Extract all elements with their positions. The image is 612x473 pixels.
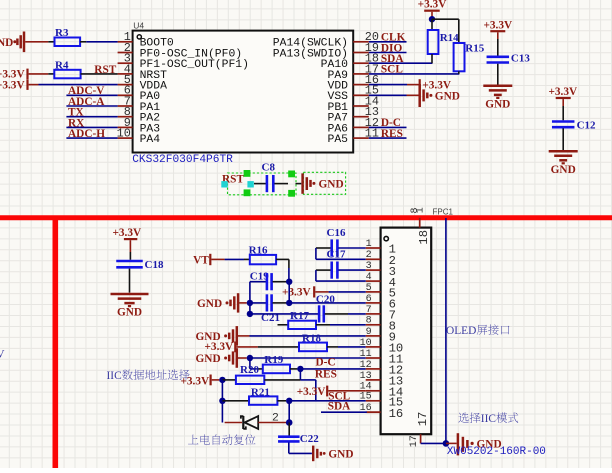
svg-text:PA4: PA4 bbox=[140, 134, 161, 146]
svg-text:+3.3V: +3.3V bbox=[297, 386, 327, 398]
svg-text:13: 13 bbox=[360, 371, 372, 382]
svg-text:D-C: D-C bbox=[316, 356, 336, 368]
svg-text:+3.3V: +3.3V bbox=[418, 0, 448, 11]
svg-text:C17: C17 bbox=[327, 248, 346, 260]
svg-text:R3: R3 bbox=[55, 27, 69, 39]
svg-text:R19: R19 bbox=[264, 354, 283, 366]
svg-text:2: 2 bbox=[272, 412, 279, 424]
svg-text:SDA: SDA bbox=[328, 400, 351, 412]
svg-text:C18: C18 bbox=[145, 259, 164, 271]
svg-text:3: 3 bbox=[366, 261, 372, 272]
svg-text:IIC: IIC bbox=[481, 413, 496, 425]
svg-text:GND: GND bbox=[435, 90, 460, 102]
svg-text:+3.3V: +3.3V bbox=[483, 19, 513, 31]
svg-text:C16: C16 bbox=[327, 227, 346, 239]
svg-text:GND: GND bbox=[0, 37, 13, 49]
svg-text:GND: GND bbox=[551, 164, 576, 176]
svg-text:IIC: IIC bbox=[107, 370, 122, 382]
svg-text:+3.3V: +3.3V bbox=[0, 79, 25, 91]
svg-text:R15: R15 bbox=[465, 42, 484, 54]
svg-text:GND: GND bbox=[485, 98, 510, 110]
svg-text:PA5: PA5 bbox=[327, 134, 348, 146]
svg-text:2: 2 bbox=[366, 250, 372, 261]
svg-text:GND: GND bbox=[196, 353, 221, 365]
svg-text:+3.3V: +3.3V bbox=[112, 227, 142, 239]
svg-text:+3.3V: +3.3V bbox=[282, 287, 312, 299]
svg-text:RES: RES bbox=[315, 369, 337, 381]
svg-text:6: 6 bbox=[366, 294, 372, 305]
svg-text:+3.3V: +3.3V bbox=[548, 86, 578, 98]
svg-text:17: 17 bbox=[409, 435, 420, 447]
svg-text:R20: R20 bbox=[240, 364, 259, 376]
svg-text:RES: RES bbox=[381, 128, 403, 140]
svg-text:XW05202-160R-00: XW05202-160R-00 bbox=[447, 446, 546, 458]
svg-text:+3.3V: +3.3V bbox=[205, 341, 235, 353]
svg-text:C8: C8 bbox=[262, 162, 276, 174]
svg-text:16: 16 bbox=[389, 407, 404, 421]
svg-text:10: 10 bbox=[117, 127, 131, 141]
svg-text:R4: R4 bbox=[55, 59, 69, 71]
svg-text:GND: GND bbox=[117, 307, 142, 319]
svg-text:GND: GND bbox=[319, 178, 344, 190]
svg-text:OLED: OLED bbox=[446, 325, 476, 337]
svg-text:CKS32F030F4P6TR: CKS32F030F4P6TR bbox=[132, 154, 233, 166]
svg-text:8: 8 bbox=[366, 316, 372, 327]
svg-text:R18: R18 bbox=[302, 332, 321, 344]
svg-text:1: 1 bbox=[415, 207, 426, 213]
svg-text:SCL: SCL bbox=[381, 64, 403, 76]
svg-text:5: 5 bbox=[366, 283, 372, 294]
svg-text:ADC-H: ADC-H bbox=[68, 128, 105, 140]
svg-text:7: 7 bbox=[366, 305, 372, 316]
svg-text:C22: C22 bbox=[300, 433, 319, 445]
svg-text:C12: C12 bbox=[577, 120, 596, 132]
svg-text:VT: VT bbox=[193, 255, 209, 267]
svg-text:FPC1: FPC1 bbox=[433, 207, 454, 216]
svg-text:1: 1 bbox=[366, 239, 372, 250]
svg-text:C20: C20 bbox=[316, 293, 335, 305]
svg-text:R16: R16 bbox=[249, 244, 268, 256]
svg-text:9: 9 bbox=[366, 327, 372, 338]
svg-text:R21: R21 bbox=[251, 386, 270, 398]
svg-text:U4: U4 bbox=[133, 21, 144, 31]
svg-text:4: 4 bbox=[366, 272, 372, 283]
svg-text:R17: R17 bbox=[290, 310, 309, 322]
svg-text:V: V bbox=[0, 349, 5, 361]
svg-text:+3.3V: +3.3V bbox=[180, 375, 210, 387]
svg-text:18: 18 bbox=[417, 230, 431, 245]
svg-text:RST: RST bbox=[94, 64, 116, 76]
svg-text:17: 17 bbox=[416, 412, 430, 427]
svg-text:GND: GND bbox=[328, 449, 353, 461]
svg-text:C13: C13 bbox=[511, 53, 530, 65]
svg-text:GND: GND bbox=[197, 298, 222, 310]
